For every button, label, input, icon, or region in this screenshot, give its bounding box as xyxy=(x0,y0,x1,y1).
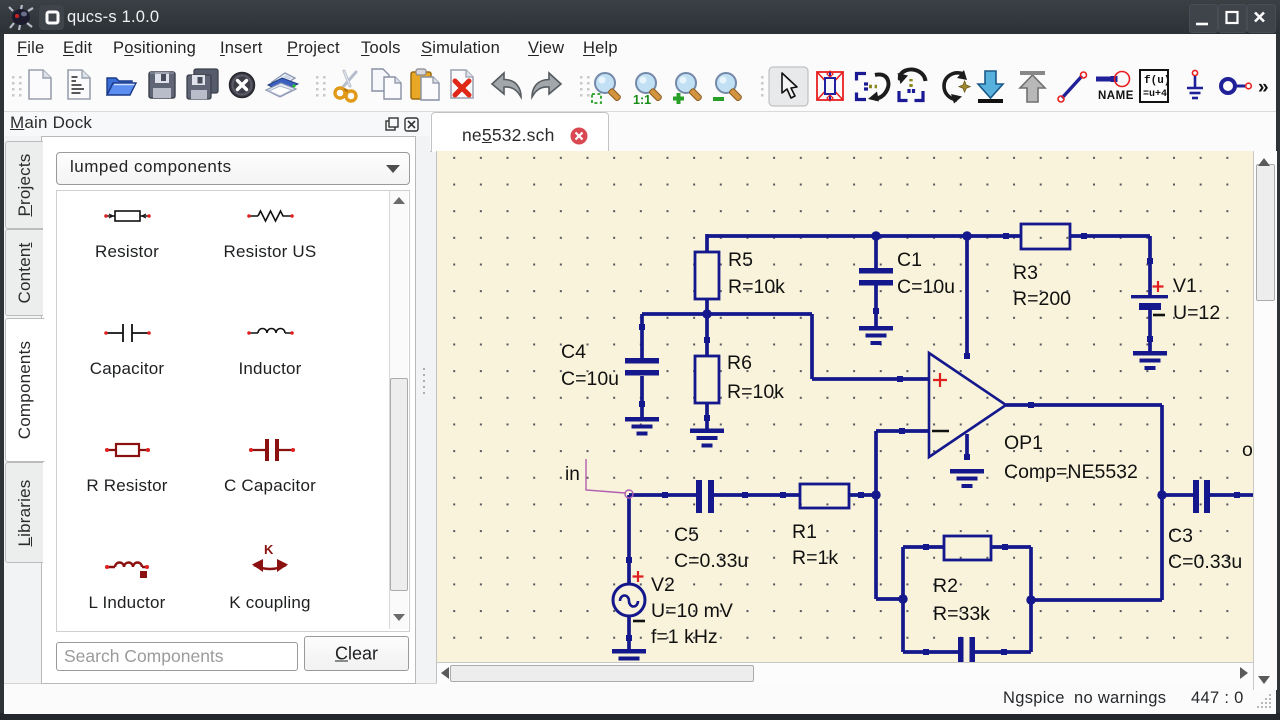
svg-text:C=10u: C=10u xyxy=(897,276,955,298)
svg-text:OP1: OP1 xyxy=(1004,432,1043,454)
svg-text:C4: C4 xyxy=(561,341,586,363)
svg-text:R=1k: R=1k xyxy=(792,547,838,569)
svg-text:f=1 kHz: f=1 kHz xyxy=(651,626,718,648)
svg-text:out: out xyxy=(1242,439,1253,461)
svg-text:R=200: R=200 xyxy=(1013,288,1071,310)
svg-text:C3: C3 xyxy=(1168,525,1193,547)
svg-text:R=10k: R=10k xyxy=(728,276,785,298)
svg-text:=u+4: =u+4 xyxy=(1143,89,1167,100)
svg-text:in: in xyxy=(565,464,580,485)
svg-text:C=10u: C=10u xyxy=(561,368,619,390)
svg-text:R6: R6 xyxy=(727,352,752,374)
svg-text:K: K xyxy=(264,542,274,557)
svg-text:V1: V1 xyxy=(1173,275,1197,297)
svg-text:»: » xyxy=(1258,77,1269,98)
svg-text:f(u): f(u) xyxy=(1144,75,1170,87)
svg-text:R=33k: R=33k xyxy=(933,603,990,625)
svg-text:R1: R1 xyxy=(792,521,817,543)
svg-text:R5: R5 xyxy=(728,249,753,271)
svg-text:C=0.33u: C=0.33u xyxy=(1168,551,1242,573)
svg-text:U=10 mV: U=10 mV xyxy=(651,600,733,622)
svg-text:C1: C1 xyxy=(897,249,922,271)
svg-text:R2: R2 xyxy=(933,575,958,597)
svg-text:C5: C5 xyxy=(674,524,699,546)
svg-text:R3: R3 xyxy=(1013,262,1038,284)
svg-text:V2: V2 xyxy=(651,574,675,596)
svg-text:NAME: NAME xyxy=(1098,90,1134,102)
svg-text:C=0.33u: C=0.33u xyxy=(674,550,748,572)
svg-text:U=12: U=12 xyxy=(1173,302,1220,324)
svg-text:R=10k: R=10k xyxy=(727,381,784,403)
svg-text:1:1: 1:1 xyxy=(633,93,651,107)
svg-text:Comp=NE5532: Comp=NE5532 xyxy=(1004,461,1138,483)
